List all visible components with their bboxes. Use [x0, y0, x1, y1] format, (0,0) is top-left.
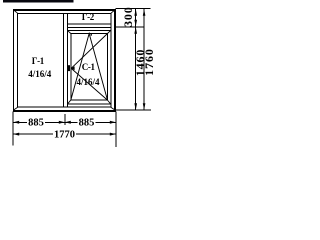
svg-text:885: 885 — [28, 118, 44, 129]
svg-text:300: 300 — [121, 6, 135, 27]
svg-text:4/16/4: 4/16/4 — [28, 69, 52, 79]
svg-text:4/16/4: 4/16/4 — [76, 77, 100, 87]
svg-text:Г-1: Г-1 — [32, 56, 45, 66]
svg-text:1760: 1760 — [142, 48, 153, 76]
svg-text:С-1: С-1 — [82, 62, 96, 72]
svg-text:1770: 1770 — [54, 130, 75, 141]
svg-text:885: 885 — [79, 118, 95, 129]
svg-text:Г-2: Г-2 — [82, 12, 95, 22]
